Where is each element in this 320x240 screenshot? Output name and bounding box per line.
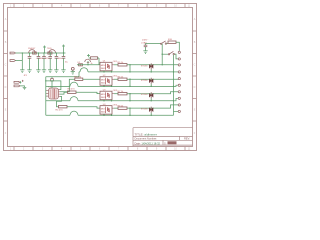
wire drop x22.3 <box>21 53 23 70</box>
capacitor C8 <box>144 44 148 51</box>
wire right AC bus vertical <box>173 55 175 115</box>
ground <box>20 70 24 73</box>
connector X2 pin 1 <box>178 51 180 53</box>
resistor R4 <box>59 106 68 108</box>
svg-text:BT136: BT136 <box>141 80 148 82</box>
wire ch2 from IC <box>60 79 75 92</box>
transistor hump Q2 <box>49 50 56 53</box>
frame row ticks left <box>4 31 8 121</box>
capacitor <box>48 53 52 70</box>
svg-text:3041: 3041 <box>101 68 107 70</box>
title block sheet highlight <box>168 141 177 144</box>
capacitor <box>28 53 32 70</box>
power symbol +5V pullup <box>87 54 90 57</box>
wire C8 to switch S1 <box>146 43 161 45</box>
IC1 microcontroller <box>49 88 59 99</box>
svg-text:R5 1k: R5 1k <box>118 62 125 64</box>
wire AC neutral bus vertical <box>45 77 47 116</box>
svg-text:S:: S: <box>164 141 167 145</box>
wire S2 to pin2 <box>174 54 178 59</box>
resistor R6 <box>118 78 127 80</box>
wire U1 left-bottom to rail <box>103 71 105 72</box>
ground <box>54 70 58 73</box>
triac T3 <box>149 92 153 101</box>
wire R7 to triac T3 <box>127 92 178 94</box>
connector pin SV1-1 <box>14 81 20 83</box>
wire U1 out to R5 <box>114 64 118 66</box>
svg-text:R7 1k: R7 1k <box>118 91 125 93</box>
wire AC rail ch2 <box>46 85 70 87</box>
frame column ticks top <box>14 4 185 8</box>
LED D4 test point <box>71 67 74 71</box>
svg-text:MOC: MOC <box>101 65 107 67</box>
resistor R9 <box>89 57 100 65</box>
wire zero-cross to IC <box>46 81 61 90</box>
junction dot <box>45 80 46 81</box>
resistor R3 <box>68 91 77 93</box>
frame margin row letters <box>5 18 196 135</box>
junction dots right bus <box>173 71 174 101</box>
switch S2 <box>168 51 174 55</box>
IC1 internal marks <box>51 89 57 98</box>
wire sense vertical <box>161 44 163 65</box>
triac T2 <box>149 78 153 87</box>
connector X2 pin 7 <box>178 91 180 93</box>
junction dot <box>162 64 163 65</box>
svg-text:R4 470: R4 470 <box>56 110 64 112</box>
wire ch1 input row <box>77 64 100 66</box>
svg-text:BT136: BT136 <box>141 109 148 111</box>
wire R6 to triac T2 <box>127 78 178 80</box>
ground <box>23 87 27 89</box>
svg-text:R3 470: R3 470 <box>68 89 76 91</box>
wire U2 right-bottom to rail <box>111 85 113 86</box>
ground <box>61 70 65 73</box>
wire R5 to triac T1 <box>127 64 178 66</box>
connector pin X1-2 <box>10 60 16 62</box>
wire pin2 stub <box>16 60 23 62</box>
wire ch1 snubber drop <box>129 65 131 72</box>
wire main supply rail <box>16 52 66 54</box>
diode D1 series <box>33 52 37 54</box>
svg-text:MOC: MOC <box>101 79 107 81</box>
wire ch4 from IC <box>57 96 62 106</box>
connector pin SV1-2 <box>14 85 20 87</box>
capacitor <box>55 53 59 70</box>
svg-text:230V~: 230V~ <box>142 39 149 41</box>
resistor R11 divider <box>51 77 54 81</box>
wire AC rail ch4 <box>46 114 70 116</box>
diode D2 <box>79 64 83 66</box>
svg-text:R2 470: R2 470 <box>74 76 82 78</box>
resistor R7 <box>118 93 127 95</box>
svg-text:3041: 3041 <box>101 83 107 85</box>
wire ch2 to opto <box>83 78 100 80</box>
wire U4 left-bottom to rail <box>103 114 105 115</box>
wire ch3 from IC <box>60 92 68 94</box>
svg-text:10u: 10u <box>65 61 68 63</box>
power symbol +5V <box>62 45 65 54</box>
junction dot <box>87 64 88 65</box>
connector X2 pin 6 <box>174 84 181 86</box>
svg-text:R6 1k: R6 1k <box>118 76 125 78</box>
resistor R5 <box>118 64 127 66</box>
wire U2 left-bottom to rail <box>103 85 105 86</box>
junction dot <box>51 80 52 81</box>
ground <box>48 70 52 73</box>
ground <box>143 51 147 54</box>
wire S1 to R10 <box>167 43 168 45</box>
wire SV1 stub <box>20 86 25 87</box>
connector X2 pin 2 <box>178 58 180 60</box>
title block outline <box>133 128 193 147</box>
ground <box>27 70 31 73</box>
wire AC rail ch1 <box>79 71 80 73</box>
resistor R2 <box>75 78 83 80</box>
IC1 center mark <box>53 89 55 99</box>
wire U4 right-bottom to rail <box>111 114 113 115</box>
svg-text:MOC: MOC <box>101 108 107 110</box>
sheet outer border frame <box>4 4 197 151</box>
svg-text:1N4007: 1N4007 <box>28 48 36 50</box>
svg-text:C: C <box>5 64 7 67</box>
wire hop ch3 <box>70 97 78 101</box>
junction dots channels <box>103 64 152 116</box>
wire S1 to S2 <box>162 53 168 55</box>
resistor R10 <box>168 41 176 43</box>
svg-text:TITLE: a/dimmer: TITLE: a/dimmer <box>135 133 157 137</box>
triac T1 <box>149 63 153 72</box>
wire hop ch2 <box>70 82 78 86</box>
wire U2 out to R6 <box>114 78 118 80</box>
ground <box>36 70 40 73</box>
svg-text:100n: 100n <box>58 58 62 60</box>
svg-text:3041: 3041 <box>101 112 107 114</box>
connector pin X1-1 <box>10 52 16 54</box>
svg-text:Document Number:: Document Number: <box>135 137 158 141</box>
svg-text:D: D <box>194 86 196 89</box>
connector X2 pin 4 <box>174 71 181 73</box>
svg-text:REV:: REV: <box>184 137 190 141</box>
svg-text:BT136: BT136 <box>141 94 148 96</box>
transistor hump Q1 <box>29 50 36 53</box>
capacitor <box>42 53 46 70</box>
wire R8 to triac T4 <box>127 105 178 108</box>
power symbol pin1 <box>20 80 24 84</box>
connector X2 pin 3 <box>178 64 180 66</box>
frame row ticks right <box>193 31 197 121</box>
wire U1 right-bottom to rail <box>111 71 113 72</box>
wire ch4 to opto <box>67 107 100 108</box>
junction dots supply rail <box>22 52 65 53</box>
capacitor <box>62 53 66 70</box>
capacitor <box>37 53 41 70</box>
connector X2 pin 9 <box>178 104 180 106</box>
svg-text:BT136: BT136 <box>141 65 148 67</box>
frame column ticks bottom <box>14 147 185 151</box>
resistor R8 <box>118 107 127 109</box>
IC1 left pins <box>46 91 49 97</box>
connector X2 pin 10 <box>174 110 181 112</box>
wire ch3 snubber drop <box>129 94 131 101</box>
ground <box>71 72 75 75</box>
regulator IC3 series <box>48 52 52 54</box>
capacitor tick on Q4 drop <box>87 61 89 63</box>
wire ch3 to opto <box>76 92 100 93</box>
power symbol +9V <box>43 46 46 54</box>
wire R11 to IC top <box>51 81 53 88</box>
svg-text:C: C <box>194 64 196 67</box>
svg-text:LOAD: LOAD <box>141 42 147 45</box>
wire hop ch4 <box>70 111 78 115</box>
IC1 right pins <box>59 90 61 97</box>
frame margin column numbers <box>10 5 191 151</box>
switch S1 <box>161 41 167 45</box>
svg-text:R8 1k: R8 1k <box>118 105 125 107</box>
ground <box>42 70 46 73</box>
wire AC rail ch3 <box>46 100 70 102</box>
connector X2 pin 8 <box>174 97 181 101</box>
wire AC rail ch1 left <box>46 72 79 77</box>
wire ch4 snubber drop <box>129 108 131 115</box>
wire Q4 to ch1 row <box>87 61 89 65</box>
wire U3 right-bottom to rail <box>111 100 113 101</box>
svg-text:MOC: MOC <box>101 94 107 96</box>
sheet inner border frame <box>8 8 193 147</box>
wire R10 to pin1 <box>176 42 179 51</box>
svg-text:D: D <box>5 86 7 89</box>
wire U4 out to R8 <box>114 107 118 109</box>
junction dot <box>162 54 163 55</box>
triac T4 <box>149 107 153 116</box>
wire hop ch1 <box>80 68 88 72</box>
svg-text:Date: 1/04/2011 18:32: Date: 1/04/2011 18:32 <box>135 141 161 145</box>
wire U3 left-bottom to rail <box>103 100 105 101</box>
wire U3 out to R7 <box>114 93 118 95</box>
transistor Q4 <box>85 59 91 62</box>
svg-text:3041: 3041 <box>101 97 107 99</box>
wire ch2 snubber drop <box>129 79 131 86</box>
connector X2 pin 5 <box>178 78 180 80</box>
